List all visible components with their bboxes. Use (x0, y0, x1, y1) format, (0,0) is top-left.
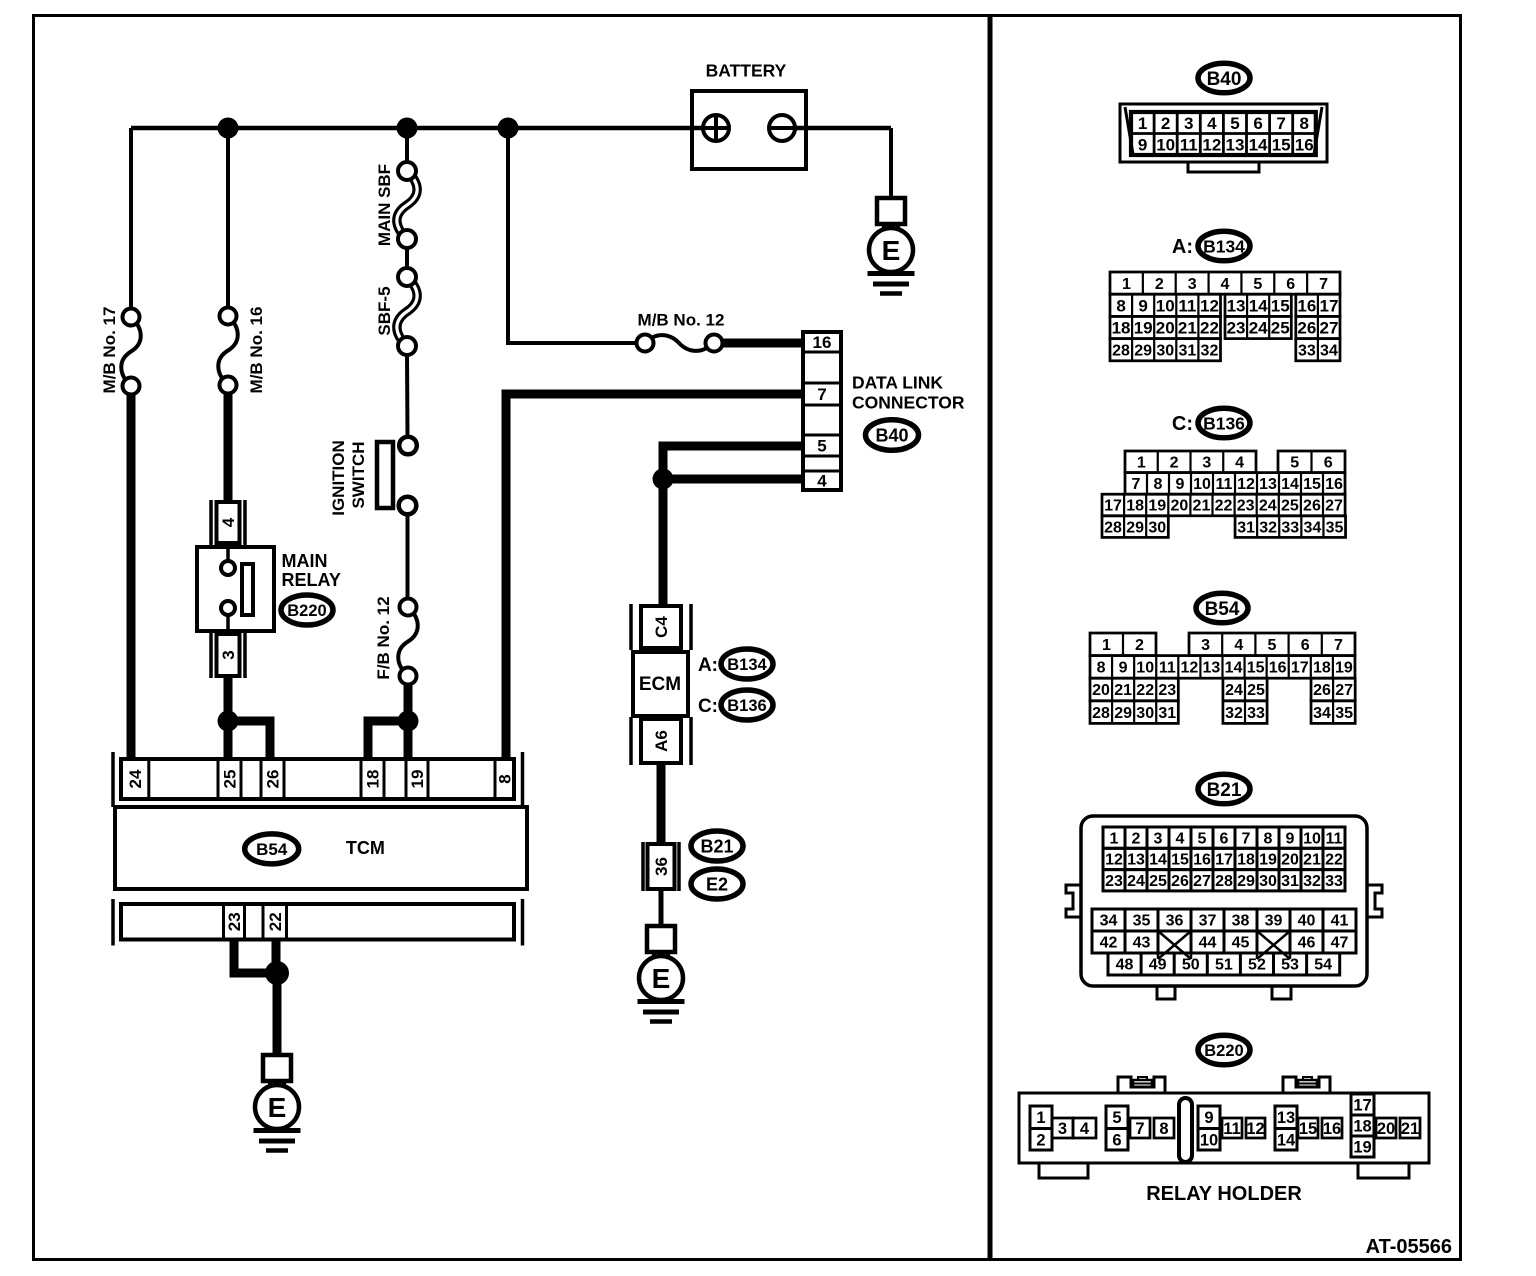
svg-text:22: 22 (1325, 852, 1343, 869)
svg-text:9: 9 (1119, 660, 1128, 677)
svg-text:E: E (882, 235, 901, 266)
svg-text:16: 16 (1323, 1120, 1341, 1138)
svg-text:29: 29 (1114, 705, 1132, 722)
svg-text:6: 6 (1301, 637, 1310, 654)
svg-text:48: 48 (1116, 957, 1134, 974)
svg-text:32: 32 (1201, 342, 1219, 359)
svg-text:15: 15 (1303, 476, 1321, 493)
svg-text:13: 13 (1227, 296, 1246, 315)
svg-text:B136: B136 (727, 697, 766, 715)
svg-text:4: 4 (817, 472, 827, 491)
svg-text:22: 22 (1215, 498, 1233, 515)
svg-text:1: 1 (1036, 1109, 1045, 1127)
svg-text:3: 3 (1184, 114, 1193, 133)
svg-text:3: 3 (1202, 454, 1211, 471)
svg-text:26: 26 (1313, 682, 1331, 699)
svg-text:25: 25 (1149, 873, 1167, 890)
svg-text:32: 32 (1259, 519, 1277, 536)
svg-text:13: 13 (1225, 135, 1244, 154)
svg-text:14: 14 (1149, 852, 1167, 869)
svg-text:10: 10 (1303, 830, 1321, 847)
svg-text:50: 50 (1182, 957, 1200, 974)
svg-text:26: 26 (1171, 873, 1189, 890)
svg-text:5: 5 (1112, 1109, 1121, 1127)
svg-text:18: 18 (364, 770, 383, 789)
svg-text:5: 5 (1230, 114, 1239, 133)
svg-text:9: 9 (1138, 296, 1147, 315)
svg-text:11: 11 (1159, 660, 1176, 677)
svg-text:54: 54 (1314, 957, 1332, 974)
svg-text:11: 11 (1223, 1120, 1240, 1138)
svg-text:31: 31 (1158, 705, 1176, 722)
svg-text:41: 41 (1331, 913, 1349, 930)
svg-text:33: 33 (1247, 705, 1265, 722)
svg-text:33: 33 (1325, 873, 1343, 890)
svg-text:22: 22 (1200, 319, 1219, 338)
svg-text:27: 27 (1193, 873, 1211, 890)
svg-text:13: 13 (1127, 852, 1145, 869)
svg-text:23: 23 (1237, 498, 1255, 515)
svg-text:5: 5 (817, 437, 826, 456)
svg-text:5: 5 (1198, 830, 1207, 847)
svg-text:20: 20 (1377, 1120, 1395, 1138)
svg-text:12: 12 (1202, 135, 1221, 154)
svg-text:18: 18 (1126, 498, 1144, 515)
svg-text:13: 13 (1277, 1109, 1295, 1127)
svg-text:8: 8 (1159, 1120, 1168, 1138)
svg-text:28: 28 (1215, 873, 1233, 890)
svg-text:10: 10 (1156, 135, 1175, 154)
svg-text:19: 19 (1148, 498, 1166, 515)
svg-text:25: 25 (1247, 682, 1265, 699)
svg-text:10: 10 (1200, 1132, 1218, 1150)
svg-text:11: 11 (1216, 476, 1233, 493)
svg-text:12: 12 (1237, 476, 1255, 493)
svg-text:29: 29 (1126, 519, 1144, 536)
svg-text:13: 13 (1259, 476, 1277, 493)
svg-text:16: 16 (1269, 660, 1287, 677)
svg-text:B21: B21 (700, 836, 733, 856)
svg-text:F/B No. 12: F/B No. 12 (374, 596, 393, 679)
svg-text:16: 16 (1325, 476, 1343, 493)
svg-text:9: 9 (1176, 476, 1185, 493)
svg-text:MAIN SBF: MAIN SBF (375, 164, 394, 246)
svg-text:46: 46 (1298, 935, 1316, 952)
svg-text:17: 17 (1319, 296, 1338, 315)
svg-text:TCM: TCM (346, 838, 385, 858)
svg-text:3: 3 (1201, 637, 1210, 654)
svg-text:35: 35 (1326, 519, 1344, 536)
svg-text:M/B No. 12: M/B No. 12 (638, 311, 725, 330)
svg-text:A:: A: (698, 655, 718, 676)
svg-text:45: 45 (1232, 935, 1250, 952)
svg-text:10: 10 (1156, 296, 1175, 315)
svg-text:44: 44 (1199, 935, 1217, 952)
svg-text:4: 4 (1207, 114, 1217, 133)
svg-text:B220: B220 (287, 602, 326, 620)
svg-text:16: 16 (1295, 135, 1314, 154)
svg-text:21: 21 (1303, 852, 1321, 869)
svg-text:27: 27 (1325, 498, 1343, 515)
svg-text:15: 15 (1272, 135, 1291, 154)
svg-text:M/B No. 16: M/B No. 16 (247, 307, 266, 394)
svg-text:26: 26 (1303, 498, 1321, 515)
svg-text:15: 15 (1271, 296, 1290, 315)
svg-text:CONNECTOR: CONNECTOR (852, 393, 965, 413)
svg-text:26: 26 (264, 770, 283, 789)
svg-text:4: 4 (1176, 830, 1185, 847)
svg-text:27: 27 (1335, 682, 1353, 699)
svg-text:11: 11 (1180, 135, 1198, 154)
svg-text:29: 29 (1134, 342, 1152, 359)
svg-text:7: 7 (1334, 637, 1343, 654)
svg-text:8: 8 (496, 774, 515, 783)
svg-text:B54: B54 (1205, 599, 1240, 620)
svg-text:20: 20 (1170, 498, 1188, 515)
svg-text:18: 18 (1112, 319, 1131, 338)
svg-text:9: 9 (1286, 830, 1295, 847)
svg-text:52: 52 (1248, 957, 1266, 974)
svg-text:47: 47 (1331, 935, 1349, 952)
svg-text:1: 1 (1102, 637, 1111, 654)
svg-text:5: 5 (1268, 637, 1277, 654)
svg-text:BATTERY: BATTERY (706, 61, 787, 81)
svg-text:4: 4 (1080, 1120, 1090, 1138)
svg-text:27: 27 (1319, 319, 1338, 338)
svg-text:11: 11 (1326, 830, 1343, 847)
svg-text:12: 12 (1105, 852, 1123, 869)
svg-text:33: 33 (1281, 519, 1299, 536)
svg-text:34: 34 (1320, 342, 1338, 359)
svg-text:23: 23 (225, 912, 244, 931)
svg-text:17: 17 (1353, 1097, 1371, 1115)
svg-text:24: 24 (1259, 498, 1277, 515)
svg-text:34: 34 (1303, 519, 1321, 536)
svg-text:19: 19 (1134, 319, 1153, 338)
svg-text:5: 5 (1253, 276, 1262, 293)
svg-text:23: 23 (1105, 873, 1123, 890)
svg-text:8: 8 (1264, 830, 1273, 847)
svg-text:C4: C4 (652, 616, 671, 638)
svg-text:7: 7 (1242, 830, 1251, 847)
svg-text:8: 8 (1154, 476, 1163, 493)
svg-text:34: 34 (1100, 913, 1118, 930)
svg-text:MAIN: MAIN (282, 551, 328, 571)
svg-text:25: 25 (1281, 498, 1299, 515)
svg-text:37: 37 (1199, 913, 1217, 930)
svg-text:7: 7 (1276, 114, 1285, 133)
svg-text:21: 21 (1193, 498, 1211, 515)
svg-text:4: 4 (219, 517, 238, 527)
svg-text:3: 3 (1188, 276, 1197, 293)
svg-text:7: 7 (1135, 1120, 1144, 1138)
svg-text:B21: B21 (1207, 780, 1242, 801)
svg-text:IGNITION: IGNITION (329, 440, 348, 516)
svg-text:23: 23 (1227, 319, 1246, 338)
svg-text:19: 19 (408, 770, 427, 789)
svg-text:14: 14 (1249, 135, 1268, 154)
svg-text:17: 17 (1291, 660, 1309, 677)
svg-text:13: 13 (1203, 660, 1221, 677)
svg-text:29: 29 (1237, 873, 1255, 890)
svg-text:19: 19 (1353, 1139, 1371, 1157)
svg-text:10: 10 (1193, 476, 1211, 493)
svg-text:18: 18 (1313, 660, 1331, 677)
svg-text:17: 17 (1104, 498, 1122, 515)
svg-text:9: 9 (1138, 135, 1147, 154)
svg-text:1: 1 (1137, 454, 1146, 471)
svg-text:B136: B136 (1203, 413, 1245, 433)
svg-text:16: 16 (1193, 852, 1211, 869)
svg-text:24: 24 (1225, 682, 1243, 699)
svg-text:DATA LINK: DATA LINK (852, 373, 943, 393)
svg-text:16: 16 (813, 333, 832, 352)
svg-text:15: 15 (1171, 852, 1189, 869)
svg-text:24: 24 (1127, 873, 1145, 890)
svg-text:26: 26 (1297, 319, 1316, 338)
svg-text:28: 28 (1112, 342, 1130, 359)
svg-text:10: 10 (1136, 660, 1154, 677)
svg-text:40: 40 (1298, 913, 1316, 930)
svg-text:8: 8 (1116, 296, 1125, 315)
svg-text:19: 19 (1335, 660, 1353, 677)
svg-text:1: 1 (1122, 276, 1131, 293)
svg-text:11: 11 (1178, 296, 1196, 315)
svg-text:2: 2 (1170, 454, 1179, 471)
svg-text:1: 1 (1110, 830, 1119, 847)
svg-text:E2: E2 (706, 874, 728, 894)
svg-text:B134: B134 (727, 656, 767, 674)
svg-text:M/B No. 17: M/B No. 17 (100, 307, 119, 394)
svg-text:31: 31 (1281, 873, 1299, 890)
svg-text:2: 2 (1155, 276, 1164, 293)
svg-text:25: 25 (221, 770, 240, 789)
svg-text:B134: B134 (1203, 236, 1245, 256)
svg-text:33: 33 (1298, 342, 1316, 359)
svg-text:21: 21 (1178, 319, 1197, 338)
svg-text:30: 30 (1148, 519, 1166, 536)
svg-text:8: 8 (1097, 660, 1106, 677)
svg-text:3: 3 (1058, 1120, 1067, 1138)
svg-text:38: 38 (1232, 913, 1250, 930)
svg-text:6: 6 (1112, 1132, 1121, 1150)
svg-text:22: 22 (266, 912, 285, 931)
svg-text:23: 23 (1158, 682, 1176, 699)
svg-text:24: 24 (126, 769, 145, 788)
svg-text:RELAY HOLDER: RELAY HOLDER (1146, 1183, 1302, 1205)
svg-text:16: 16 (1297, 296, 1316, 315)
svg-text:34: 34 (1313, 705, 1331, 722)
svg-text:RELAY: RELAY (282, 570, 341, 590)
svg-text:12: 12 (1180, 660, 1198, 677)
svg-text:30: 30 (1259, 873, 1277, 890)
svg-text:36: 36 (1166, 913, 1184, 930)
svg-text:B40: B40 (875, 425, 908, 445)
svg-text:20: 20 (1156, 319, 1175, 338)
svg-text:31: 31 (1178, 342, 1196, 359)
svg-text:53: 53 (1281, 957, 1299, 974)
svg-text:A6: A6 (652, 730, 671, 752)
svg-text:6: 6 (1253, 114, 1262, 133)
svg-text:6: 6 (1324, 454, 1333, 471)
svg-text:6: 6 (1286, 276, 1295, 293)
svg-text:32: 32 (1303, 873, 1321, 890)
svg-text:8: 8 (1300, 114, 1309, 133)
svg-text:ECM: ECM (639, 674, 681, 695)
svg-text:A:: A: (1172, 236, 1193, 258)
svg-text:B54: B54 (256, 840, 288, 859)
svg-text:12: 12 (1200, 296, 1219, 315)
svg-text:35: 35 (1335, 705, 1353, 722)
svg-text:B40: B40 (1207, 69, 1242, 90)
svg-text:15: 15 (1247, 660, 1265, 677)
svg-text:AT-05566: AT-05566 (1366, 1236, 1452, 1258)
svg-text:20: 20 (1092, 682, 1110, 699)
svg-text:2: 2 (1132, 830, 1141, 847)
svg-text:31: 31 (1237, 519, 1255, 536)
svg-text:36: 36 (652, 857, 671, 876)
svg-text:14: 14 (1225, 660, 1243, 677)
svg-text:9: 9 (1204, 1109, 1213, 1127)
svg-text:2: 2 (1036, 1132, 1045, 1150)
svg-text:4: 4 (1221, 276, 1230, 293)
svg-text:18: 18 (1237, 852, 1255, 869)
svg-text:17: 17 (1215, 852, 1233, 869)
svg-text:30: 30 (1136, 705, 1154, 722)
svg-text:43: 43 (1133, 935, 1151, 952)
svg-text:3: 3 (1154, 830, 1163, 847)
svg-text:28: 28 (1104, 519, 1122, 536)
svg-text:49: 49 (1149, 957, 1167, 974)
svg-text:20: 20 (1281, 852, 1299, 869)
svg-text:21: 21 (1401, 1120, 1419, 1138)
svg-text:C:: C: (698, 696, 718, 717)
svg-text:15: 15 (1299, 1120, 1317, 1138)
svg-text:14: 14 (1277, 1132, 1296, 1150)
svg-text:2: 2 (1161, 114, 1170, 133)
svg-text:7: 7 (817, 385, 826, 404)
svg-text:C:: C: (1172, 413, 1193, 435)
svg-text:E: E (268, 1092, 287, 1123)
svg-text:42: 42 (1100, 935, 1118, 952)
svg-text:24: 24 (1249, 319, 1268, 338)
svg-text:B220: B220 (1204, 1042, 1243, 1060)
svg-text:32: 32 (1225, 705, 1243, 722)
svg-text:14: 14 (1249, 296, 1268, 315)
svg-text:SBF-5: SBF-5 (375, 286, 394, 335)
svg-text:22: 22 (1136, 682, 1154, 699)
svg-text:3: 3 (219, 650, 238, 659)
svg-text:7: 7 (1319, 276, 1328, 293)
svg-text:2: 2 (1135, 637, 1144, 654)
svg-text:5: 5 (1290, 454, 1299, 471)
svg-text:SWITCH: SWITCH (349, 441, 368, 508)
svg-text:21: 21 (1114, 682, 1132, 699)
svg-text:39: 39 (1265, 913, 1283, 930)
svg-text:6: 6 (1220, 830, 1229, 847)
svg-text:14: 14 (1281, 476, 1299, 493)
svg-text:19: 19 (1259, 852, 1277, 869)
svg-text:28: 28 (1092, 705, 1110, 722)
svg-text:25: 25 (1271, 319, 1290, 338)
svg-text:4: 4 (1235, 454, 1244, 471)
svg-text:51: 51 (1215, 957, 1233, 974)
svg-text:4: 4 (1234, 637, 1243, 654)
svg-text:18: 18 (1353, 1118, 1371, 1136)
svg-text:30: 30 (1156, 342, 1174, 359)
svg-text:35: 35 (1133, 913, 1151, 930)
svg-text:12: 12 (1246, 1120, 1264, 1138)
svg-text:1: 1 (1138, 114, 1147, 133)
svg-text:E: E (652, 963, 671, 994)
svg-text:7: 7 (1132, 476, 1141, 493)
